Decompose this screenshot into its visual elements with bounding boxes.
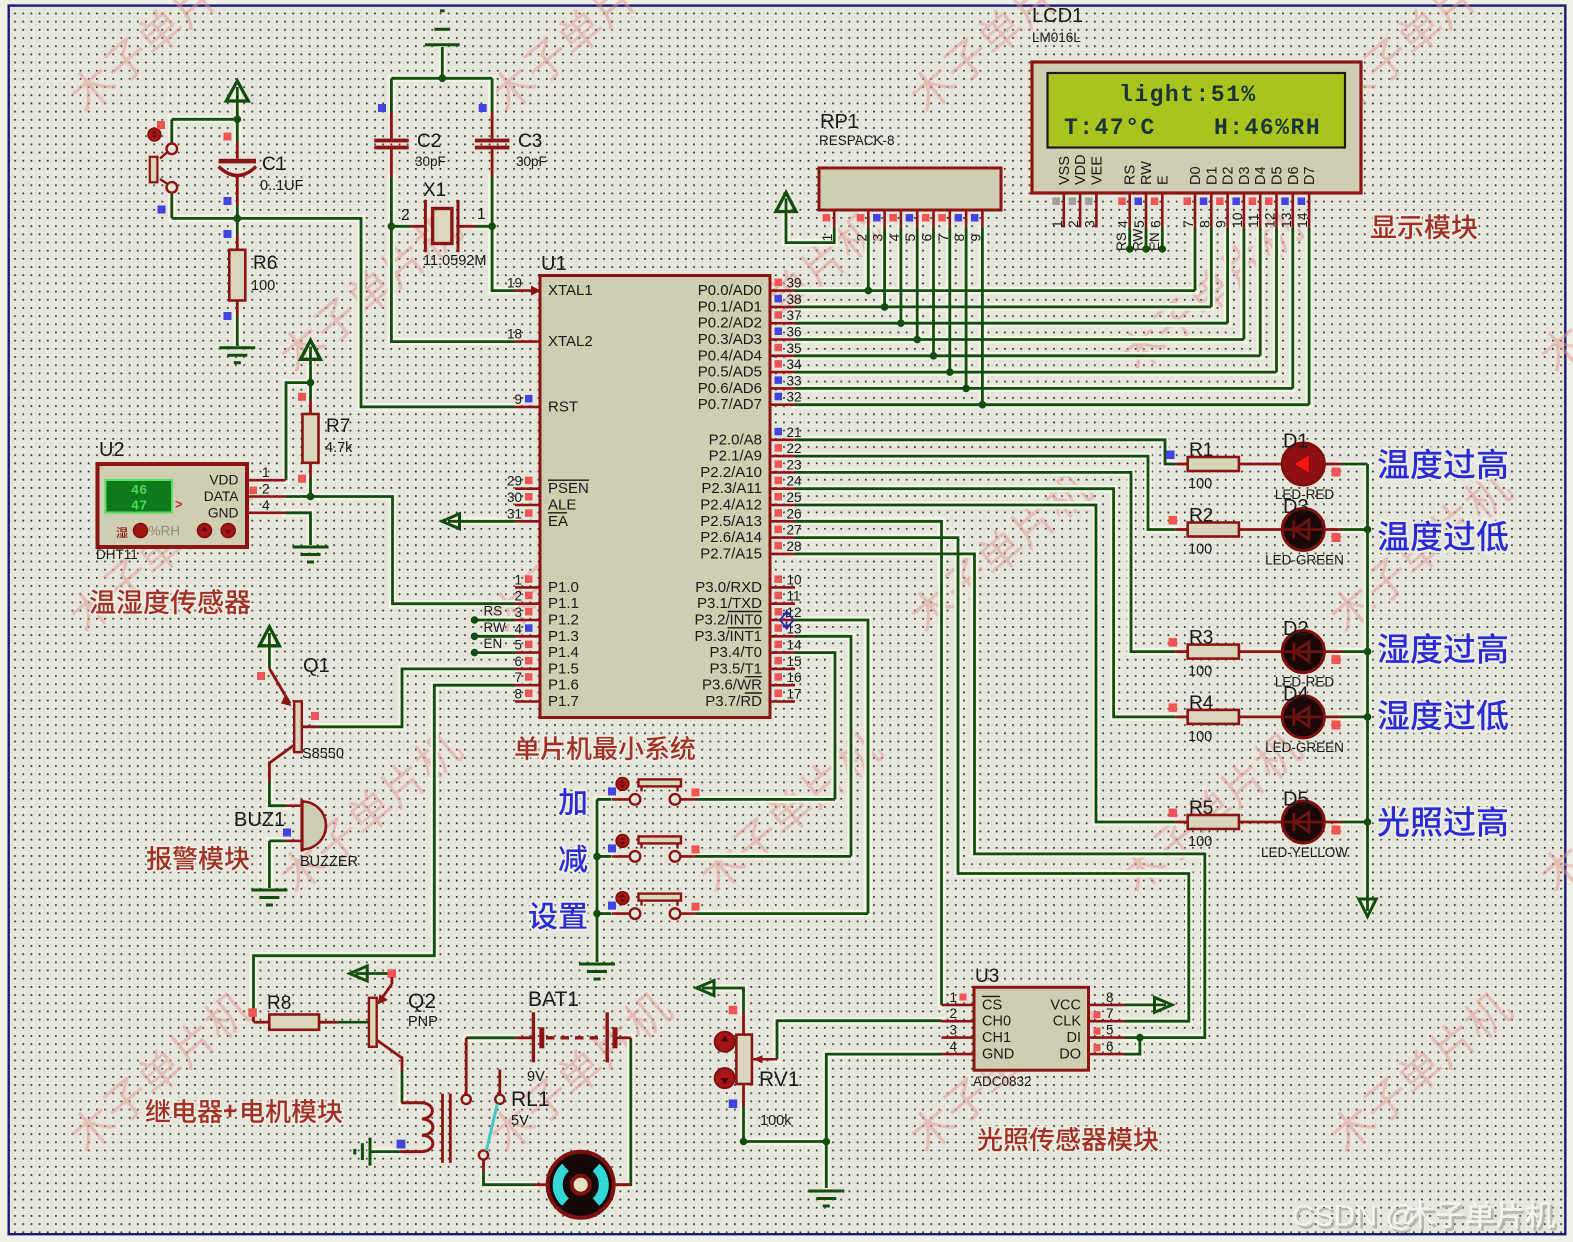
svg-text:C2: C2 bbox=[417, 131, 441, 152]
wire bbox=[1366, 464, 1369, 911]
svg-text:35: 35 bbox=[787, 341, 802, 356]
svg-text:D3: D3 bbox=[1237, 166, 1253, 185]
svg-text:9: 9 bbox=[967, 234, 983, 242]
U1 pin 8 P1.7 bbox=[515, 700, 540, 703]
svg-text:33: 33 bbox=[787, 373, 802, 388]
U3 pin 7 CLK bbox=[1089, 1020, 1125, 1023]
label 湿度过低 bbox=[1378, 699, 1508, 730]
wire bbox=[597, 798, 612, 801]
wire bbox=[696, 912, 868, 915]
svg-text:R3: R3 bbox=[1189, 628, 1213, 649]
svg-text:100: 100 bbox=[1188, 476, 1212, 492]
label 显示模块 bbox=[1371, 214, 1477, 239]
svg-text:XTAL2: XTAL2 bbox=[548, 333, 593, 350]
svg-text:D3: D3 bbox=[1283, 496, 1309, 518]
ground (R6) bbox=[219, 348, 255, 363]
U1 pin 17 P3.7/RD bbox=[770, 700, 795, 703]
wire bbox=[948, 227, 951, 372]
LED D3 LED-GREEN bbox=[1282, 509, 1324, 551]
junction bbox=[897, 319, 905, 327]
wire bbox=[795, 440, 1176, 464]
junction bbox=[471, 633, 479, 641]
capacitor C3 bbox=[491, 112, 494, 139]
wire bbox=[795, 489, 1176, 717]
svg-text:Q1: Q1 bbox=[303, 655, 330, 677]
svg-text:U1: U1 bbox=[541, 253, 567, 275]
label 单片机最小系统 bbox=[515, 736, 695, 760]
op-amp U1 8051 MCU bbox=[540, 276, 770, 718]
wire bbox=[981, 227, 984, 404]
U1 pin 37 P0.2/AD2 bbox=[770, 322, 795, 325]
svg-text:6: 6 bbox=[514, 654, 522, 669]
svg-text:7: 7 bbox=[1180, 220, 1196, 228]
U2 pin 2 DATA bbox=[247, 495, 286, 498]
svg-text:5: 5 bbox=[514, 638, 522, 653]
wire bbox=[597, 855, 612, 858]
svg-text:3: 3 bbox=[949, 1023, 957, 1038]
LCD pin 4 RS bbox=[1123, 165, 1139, 185]
U1 pin 36 P0.3/AD3 bbox=[770, 338, 795, 341]
ground (crystal, inverted) bbox=[425, 11, 460, 45]
LCD pin 11 D4 bbox=[1253, 166, 1269, 185]
svg-text:4: 4 bbox=[949, 1039, 957, 1054]
LCD pin 8 D1 bbox=[1204, 166, 1220, 185]
svg-text:D5: D5 bbox=[1283, 789, 1309, 811]
svg-text:R1: R1 bbox=[1189, 440, 1213, 461]
U3 pin 4 GND bbox=[942, 1053, 975, 1056]
svg-text:P1.2: P1.2 bbox=[548, 612, 579, 629]
U2 pin 1 VDD bbox=[247, 479, 286, 482]
wire bbox=[916, 227, 919, 339]
wire bbox=[1275, 227, 1278, 372]
svg-text:P3.0/RXD: P3.0/RXD bbox=[695, 579, 762, 596]
wire bbox=[965, 227, 968, 388]
resistor R2 bbox=[1176, 528, 1188, 531]
wire bbox=[825, 1142, 828, 1189]
wire bbox=[795, 305, 1211, 308]
svg-text:30pF: 30pF bbox=[516, 154, 547, 169]
LED D5 LED-YELLOW bbox=[1282, 801, 1324, 843]
wire bbox=[867, 227, 870, 290]
RP1 pin 1 bbox=[833, 210, 836, 227]
junction bbox=[1142, 245, 1150, 253]
wire bbox=[286, 513, 311, 545]
wire bbox=[786, 199, 834, 243]
svg-text:>: > bbox=[175, 497, 183, 512]
svg-text:7: 7 bbox=[935, 234, 951, 242]
svg-text:1: 1 bbox=[262, 465, 270, 480]
label 报警模块 bbox=[147, 846, 249, 870]
svg-text:P1.1: P1.1 bbox=[548, 595, 579, 612]
svg-text:S8550: S8550 bbox=[302, 746, 344, 762]
U1 pin 32 P0.7/AD7 bbox=[770, 403, 795, 406]
svg-text:4: 4 bbox=[514, 621, 522, 636]
U3 pin 3 CH1 bbox=[942, 1036, 975, 1039]
U1 pin 5 P1.4 bbox=[515, 651, 540, 654]
svg-text:P2.2/A10: P2.2/A10 bbox=[700, 464, 762, 481]
resistor R8 bbox=[252, 1011, 255, 1022]
svg-text:P1.5: P1.5 bbox=[548, 660, 579, 677]
CSDN watermark bbox=[1292, 1200, 1418, 1236]
svg-text:RW: RW bbox=[1131, 228, 1146, 251]
wire bbox=[236, 205, 239, 218]
LCD pin 5 RW bbox=[1139, 161, 1155, 185]
svg-text:P1.7: P1.7 bbox=[548, 693, 579, 710]
cursor crosshair at pin 12 bbox=[780, 610, 794, 630]
wire bbox=[777, 1021, 942, 1060]
svg-text:19: 19 bbox=[507, 276, 522, 291]
svg-text:100: 100 bbox=[1188, 664, 1212, 680]
wire bbox=[1341, 528, 1368, 531]
wire bbox=[268, 633, 271, 669]
wire bbox=[795, 538, 1189, 1022]
wire bbox=[795, 620, 868, 914]
svg-text:6: 6 bbox=[919, 234, 935, 242]
RP1 pin 5 bbox=[916, 210, 919, 227]
ground (RV1/U3) bbox=[808, 1191, 844, 1206]
svg-text:2: 2 bbox=[262, 482, 270, 497]
svg-text:14: 14 bbox=[1294, 212, 1310, 228]
RP1 pin 3 bbox=[883, 210, 886, 227]
junction bbox=[1136, 1034, 1144, 1042]
svg-text:DHT11: DHT11 bbox=[96, 547, 138, 562]
junction bbox=[307, 493, 315, 501]
svg-text:LED-YELLOW: LED-YELLOW bbox=[1261, 845, 1348, 860]
svg-text:T:47°C: T:47°C bbox=[1064, 115, 1156, 141]
wire bbox=[596, 799, 599, 962]
svg-text:47: 47 bbox=[131, 500, 147, 515]
svg-text:D1: D1 bbox=[1204, 166, 1220, 185]
svg-text:P1.3: P1.3 bbox=[548, 628, 579, 645]
transistor Q1 S8550 bbox=[269, 669, 290, 704]
svg-text:13: 13 bbox=[1278, 212, 1294, 228]
U1 pin 10 P3.0/RXD bbox=[770, 586, 795, 589]
buzzer BUZ1 bbox=[286, 804, 302, 807]
svg-text:VCC: VCC bbox=[1050, 997, 1081, 1013]
svg-text:BUZZER: BUZZER bbox=[300, 854, 358, 870]
svg-text:LED-GREEN: LED-GREEN bbox=[1265, 553, 1344, 568]
svg-text:22: 22 bbox=[787, 441, 802, 456]
U1 pin 13 P3.3/INT1 bbox=[770, 635, 795, 638]
svg-text:100: 100 bbox=[1188, 729, 1212, 745]
svg-text:5V: 5V bbox=[511, 1113, 529, 1129]
svg-text:R8: R8 bbox=[267, 993, 291, 1014]
svg-text:P0.6/AD6: P0.6/AD6 bbox=[698, 380, 762, 397]
label 湿度过高 bbox=[1378, 633, 1507, 664]
junction bbox=[471, 649, 479, 657]
svg-text:VSS: VSS bbox=[1057, 156, 1073, 185]
svg-text:10: 10 bbox=[787, 572, 802, 587]
capacitor C2 bbox=[390, 112, 393, 139]
RP1 pin 4 bbox=[900, 210, 903, 227]
svg-text:Q2: Q2 bbox=[408, 990, 436, 1013]
wire bbox=[614, 1038, 631, 1185]
wire bbox=[269, 782, 286, 806]
svg-text:11: 11 bbox=[787, 589, 801, 604]
wire bbox=[696, 855, 851, 858]
svg-text:13: 13 bbox=[787, 621, 802, 636]
wire bbox=[744, 1140, 827, 1143]
U1 pin 25 P2.4/A12 bbox=[770, 504, 795, 507]
svg-text:D2: D2 bbox=[1221, 166, 1237, 185]
svg-text:P0.3/AD3: P0.3/AD3 bbox=[698, 331, 762, 348]
wire bbox=[236, 119, 239, 141]
wire bbox=[1308, 227, 1311, 404]
svg-text:RW: RW bbox=[484, 620, 507, 635]
wire bbox=[795, 322, 1228, 325]
svg-text:ADC0832: ADC0832 bbox=[973, 1074, 1032, 1089]
svg-text:28: 28 bbox=[787, 539, 802, 554]
svg-text:11.0592M: 11.0592M bbox=[423, 253, 486, 269]
wire bbox=[1128, 227, 1131, 249]
svg-text:5: 5 bbox=[902, 234, 918, 242]
wire bbox=[883, 227, 886, 307]
sensor U2 DHT11 bbox=[98, 464, 248, 547]
svg-text:D0: D0 bbox=[1188, 166, 1204, 185]
wire bbox=[172, 118, 238, 121]
svg-text:P1.4: P1.4 bbox=[548, 644, 579, 661]
U1 pin 3 P1.2 bbox=[515, 619, 540, 622]
U1 pin 35 P0.4/AD4 bbox=[770, 354, 795, 357]
junction bbox=[307, 379, 315, 387]
svg-text:14: 14 bbox=[787, 638, 803, 653]
svg-text:10: 10 bbox=[1229, 212, 1245, 228]
svg-text:P0.2/AD2: P0.2/AD2 bbox=[698, 315, 762, 332]
resistor R3 bbox=[1176, 650, 1188, 653]
svg-text:37: 37 bbox=[787, 308, 802, 323]
svg-text:VDD: VDD bbox=[209, 473, 238, 488]
LCD pin 9 D2 bbox=[1221, 166, 1237, 185]
power arrow VCC (Q1) bbox=[259, 627, 279, 646]
LCD pin 1 VSS bbox=[1057, 156, 1073, 185]
resistor R1 bbox=[1176, 463, 1188, 466]
svg-text:P3.3/INT1: P3.3/INT1 bbox=[694, 628, 762, 645]
LCD pin 3 VEE bbox=[1089, 156, 1105, 185]
svg-text:9: 9 bbox=[514, 392, 522, 407]
svg-text:P0.1/AD1: P0.1/AD1 bbox=[698, 298, 762, 315]
wire bbox=[492, 226, 515, 290]
svg-text:46: 46 bbox=[131, 484, 147, 499]
svg-text:DATA: DATA bbox=[204, 489, 240, 504]
svg-text:RS: RS bbox=[484, 604, 503, 619]
wire bbox=[475, 635, 516, 638]
wire bbox=[269, 840, 286, 843]
wire bbox=[1341, 821, 1368, 824]
junction bbox=[1126, 245, 1134, 253]
svg-text:4: 4 bbox=[886, 234, 902, 242]
wire bbox=[448, 520, 515, 523]
label 减 bbox=[559, 845, 587, 873]
svg-text:P2.4/A12: P2.4/A12 bbox=[700, 497, 762, 514]
svg-text:BAT1: BAT1 bbox=[528, 988, 579, 1011]
svg-text:D6: D6 bbox=[1286, 166, 1302, 185]
battery BAT1 9V bbox=[516, 1036, 534, 1039]
wire bbox=[170, 119, 173, 143]
svg-text:5: 5 bbox=[1106, 1023, 1114, 1038]
svg-text:light:51%: light:51% bbox=[1119, 82, 1257, 108]
svg-text:RP1: RP1 bbox=[820, 111, 859, 133]
wire bbox=[795, 521, 942, 1005]
LCD pin 12 D5 bbox=[1270, 166, 1286, 185]
svg-text:25: 25 bbox=[787, 490, 802, 505]
junction bbox=[471, 616, 479, 624]
wire bbox=[441, 47, 444, 78]
U1 pin 18 XTAL2 bbox=[515, 340, 540, 343]
wire bbox=[826, 1054, 941, 1141]
label 设置 bbox=[529, 902, 586, 929]
svg-text:CS: CS bbox=[982, 997, 1002, 1013]
wire bbox=[1194, 227, 1197, 290]
svg-text:12: 12 bbox=[787, 605, 802, 620]
svg-text:38: 38 bbox=[787, 292, 802, 307]
svg-text:9: 9 bbox=[1213, 220, 1229, 228]
svg-text:2: 2 bbox=[949, 1006, 957, 1021]
svg-text:P3.1/TXD: P3.1/TXD bbox=[697, 595, 762, 612]
svg-text:11: 11 bbox=[1245, 213, 1261, 228]
svg-text:100: 100 bbox=[1188, 542, 1212, 558]
svg-text:P1.6: P1.6 bbox=[548, 677, 579, 694]
svg-text:GND: GND bbox=[208, 505, 239, 520]
svg-text:P0.4/AD4: P0.4/AD4 bbox=[698, 347, 762, 364]
LCD pin 14 D7 bbox=[1302, 166, 1318, 185]
relay RL1 switch bbox=[465, 1038, 468, 1095]
svg-text:+: + bbox=[223, 1098, 237, 1125]
label 光照传感器模块 bbox=[978, 1127, 1158, 1151]
svg-text:PNP: PNP bbox=[408, 1014, 438, 1030]
wire bbox=[900, 227, 903, 323]
svg-text:PSEN: PSEN bbox=[548, 480, 589, 497]
svg-text:LCD1: LCD1 bbox=[1032, 5, 1083, 27]
svg-text:1: 1 bbox=[819, 234, 835, 242]
svg-text:LED-GREEN: LED-GREEN bbox=[1265, 740, 1344, 755]
wire bbox=[1125, 1038, 1140, 1055]
label 温度过低 bbox=[1378, 520, 1508, 551]
svg-text:E: E bbox=[1155, 175, 1171, 185]
wire bbox=[484, 1172, 535, 1185]
svg-text:2: 2 bbox=[401, 207, 410, 224]
U1 pin 15 P3.5/T1 bbox=[770, 668, 795, 671]
LCD pin 2 VDD bbox=[1073, 154, 1089, 185]
wire bbox=[491, 78, 494, 112]
wire bbox=[1226, 227, 1229, 323]
svg-text:CSDN @: CSDN @ bbox=[1292, 1200, 1416, 1233]
junction bbox=[962, 385, 970, 393]
svg-text:P3.7/RD: P3.7/RD bbox=[705, 693, 762, 710]
U1 pin 14 P3.4/T0 bbox=[770, 651, 795, 654]
svg-text:P2.6/A14: P2.6/A14 bbox=[700, 529, 762, 546]
svg-text:%RH: %RH bbox=[149, 524, 181, 539]
wire bbox=[702, 988, 744, 1012]
svg-text:D5: D5 bbox=[1270, 166, 1286, 185]
button K2 (minus) bbox=[616, 835, 629, 848]
potentiometer RV1 bbox=[729, 1006, 738, 1015]
svg-text:18: 18 bbox=[507, 327, 522, 342]
LCD pin 13 D6 bbox=[1286, 166, 1302, 185]
power arrow VCC (reset) bbox=[226, 81, 248, 101]
svg-text:1: 1 bbox=[1049, 220, 1065, 228]
svg-text:P3.4/T0: P3.4/T0 bbox=[709, 644, 762, 661]
svg-text:C1: C1 bbox=[262, 154, 286, 175]
svg-text:H:46%RH: H:46%RH bbox=[1214, 115, 1321, 141]
U1 pin 11 P3.1/TXD bbox=[770, 602, 795, 605]
wire bbox=[491, 177, 494, 226]
wire bbox=[795, 456, 1176, 529]
wire bbox=[1291, 227, 1294, 388]
U3 pin 5 DI bbox=[1089, 1036, 1125, 1039]
junction bbox=[913, 336, 921, 344]
U1 pin 2 P1.1 bbox=[515, 602, 540, 605]
ADC U3 ADC0832 bbox=[974, 987, 1089, 1070]
svg-text:P3.2/INT0: P3.2/INT0 bbox=[694, 612, 762, 629]
svg-text:39: 39 bbox=[787, 276, 802, 291]
svg-text:R7: R7 bbox=[326, 416, 350, 437]
svg-text:VEE: VEE bbox=[1089, 156, 1105, 185]
LED D2 LED-RED bbox=[1282, 631, 1324, 673]
junction bbox=[593, 853, 601, 861]
junction bbox=[388, 223, 396, 231]
svg-text:P3.6/WR: P3.6/WR bbox=[702, 677, 762, 694]
U1 pin 27 P2.6/A14 bbox=[770, 536, 795, 539]
junction bbox=[1364, 713, 1372, 721]
wire bbox=[1125, 1004, 1167, 1007]
svg-text:6: 6 bbox=[1147, 220, 1163, 228]
svg-text:2: 2 bbox=[853, 234, 869, 242]
RP1 pin 9 bbox=[981, 210, 984, 227]
wire bbox=[795, 554, 1205, 1038]
junction bbox=[865, 287, 873, 295]
LCD1 LM016L bbox=[1032, 62, 1361, 193]
svg-text:R6: R6 bbox=[253, 253, 277, 274]
wire bbox=[1259, 227, 1262, 355]
power arrow VCC (R7) bbox=[301, 340, 321, 359]
svg-text:RS: RS bbox=[1123, 165, 1139, 185]
wire bbox=[309, 383, 312, 399]
junction bbox=[823, 1138, 831, 1146]
svg-text:2: 2 bbox=[514, 589, 522, 604]
svg-text:26: 26 bbox=[787, 506, 802, 521]
wire bbox=[1145, 227, 1148, 249]
svg-text:CH1: CH1 bbox=[982, 1030, 1011, 1046]
svg-text:100: 100 bbox=[251, 278, 275, 294]
wire bbox=[1341, 650, 1368, 653]
wire bbox=[1161, 227, 1164, 249]
svg-text:P0.7/AD7: P0.7/AD7 bbox=[698, 396, 762, 413]
svg-text:27: 27 bbox=[787, 523, 802, 538]
U1 pin 19 XTAL1 bbox=[515, 289, 540, 292]
svg-text:2: 2 bbox=[1065, 220, 1081, 228]
wire bbox=[795, 289, 1195, 292]
svg-text:15: 15 bbox=[787, 654, 802, 669]
wire bbox=[268, 841, 271, 888]
junction bbox=[979, 401, 987, 409]
resistor R7 bbox=[309, 399, 312, 414]
junction bbox=[946, 368, 954, 376]
svg-text:9V: 9V bbox=[527, 1069, 545, 1085]
svg-text:5: 5 bbox=[1131, 220, 1147, 228]
wire bbox=[795, 636, 851, 856]
svg-text:R4: R4 bbox=[1189, 693, 1214, 714]
wire bbox=[597, 912, 612, 915]
wire bbox=[795, 403, 1309, 406]
svg-text:P2.7/A15: P2.7/A15 bbox=[700, 545, 762, 562]
ground (buzzer) bbox=[251, 890, 287, 905]
U2 pin 4 GND bbox=[247, 511, 286, 514]
U1 pin 33 P0.6/AD6 bbox=[770, 387, 795, 390]
button K3 (set) bbox=[616, 892, 629, 905]
resistor pack RP1 RESPACK-8 bbox=[819, 168, 1001, 210]
wire bbox=[1210, 227, 1213, 307]
svg-text:24: 24 bbox=[787, 474, 803, 489]
